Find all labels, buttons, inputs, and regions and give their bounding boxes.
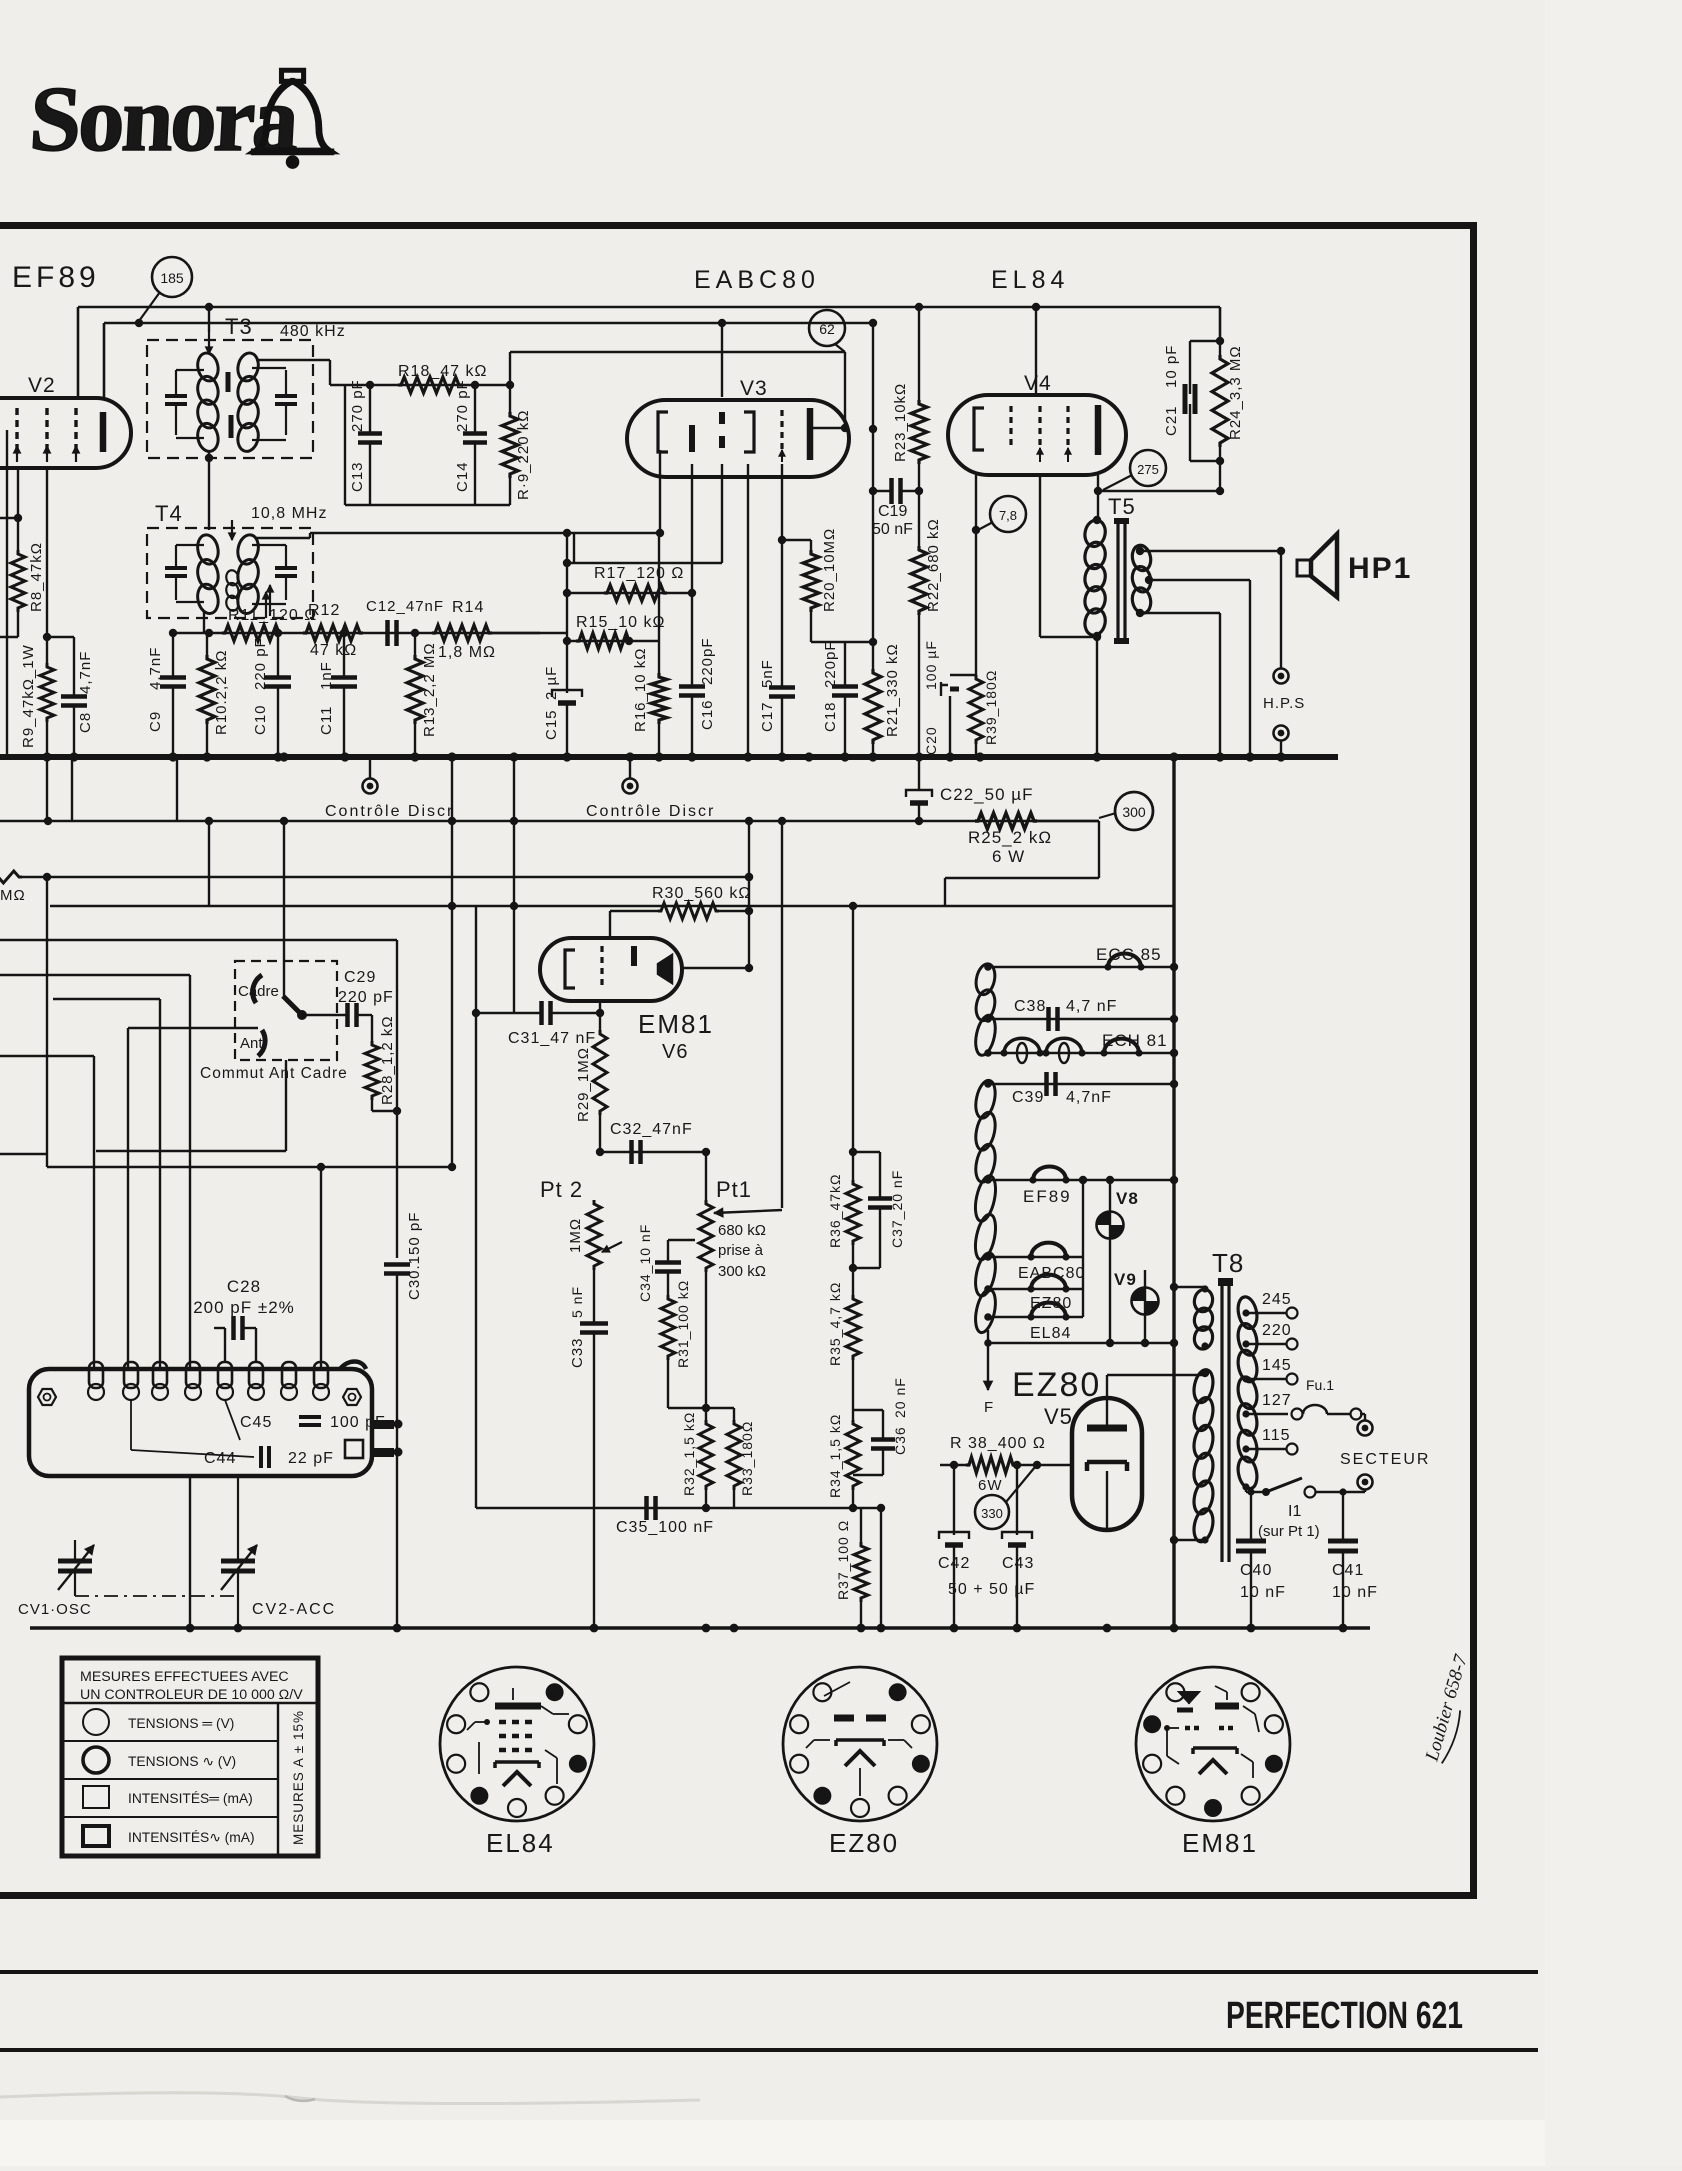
svg-text:1,8 MΩ: 1,8 MΩ (438, 644, 496, 661)
svg-text:6 W: 6 W (992, 847, 1025, 866)
svg-text:EM81: EM81 (638, 1009, 714, 1039)
svg-text:C31_47 nF: C31_47 nF (508, 1030, 596, 1047)
svg-text:V2: V2 (28, 374, 56, 397)
svg-text:50 nF: 50 nF (872, 521, 913, 538)
svg-text:C38: C38 (1014, 998, 1046, 1015)
svg-text:R39_180Ω: R39_180Ω (983, 670, 999, 745)
svg-text:480 kHz: 480 kHz (280, 323, 346, 340)
svg-text:C16: C16 (699, 699, 716, 730)
svg-text:R24_3,3 MΩ: R24_3,3 MΩ (1227, 345, 1244, 440)
svg-text:245: 245 (1262, 1291, 1292, 1308)
svg-text:C20: C20 (923, 726, 939, 755)
svg-text:C8: C8 (77, 712, 94, 733)
svg-text:220pF: 220pF (699, 637, 716, 685)
svg-text:R28_1,2 kΩ: R28_1,2 kΩ (379, 1015, 396, 1105)
svg-text:T3: T3 (225, 314, 253, 339)
svg-text:T8: T8 (1212, 1248, 1244, 1278)
svg-text:R32_1,5 kΩ: R32_1,5 kΩ (681, 1412, 697, 1496)
svg-text:R16_10 kΩ: R16_10 kΩ (632, 648, 649, 732)
svg-text:115: 115 (1262, 1427, 1291, 1444)
svg-text:270 pF: 270 pF (349, 379, 366, 432)
svg-text:4,7nF: 4,7nF (77, 651, 94, 694)
svg-text:C28: C28 (227, 1277, 261, 1296)
svg-text:R11_120 Ω: R11_120 Ω (228, 607, 317, 624)
svg-text:EL84: EL84 (1030, 1325, 1071, 1342)
svg-text:R20_10MΩ: R20_10MΩ (821, 528, 838, 612)
svg-text:680 kΩ: 680 kΩ (718, 1222, 766, 1239)
svg-text:C42: C42 (938, 1555, 970, 1572)
svg-text:220: 220 (1262, 1322, 1292, 1339)
svg-text:MΩ: MΩ (0, 887, 26, 904)
svg-text:TENSIONS ═ (V): TENSIONS ═ (V) (128, 1716, 234, 1731)
svg-text:TENSIONS ∿ (V): TENSIONS ∿ (V) (128, 1754, 236, 1769)
svg-text:1MΩ: 1MΩ (567, 1218, 584, 1253)
svg-text:UN CONTROLEUR DE 10 000 Ω/V: UN CONTROLEUR DE 10 000 Ω/V (80, 1687, 303, 1703)
svg-text:275: 275 (1137, 462, 1159, 477)
svg-text:10 nF: 10 nF (1240, 1584, 1286, 1601)
svg-text:1nF: 1nF (318, 661, 335, 690)
svg-text:SECTEUR: SECTEUR (1340, 1451, 1430, 1468)
svg-text:V9: V9 (1114, 1270, 1137, 1289)
svg-text:C36: C36 (892, 1426, 908, 1455)
svg-text:EL84: EL84 (991, 266, 1069, 294)
svg-text:R14: R14 (452, 599, 484, 616)
svg-text:127: 127 (1262, 1392, 1292, 1409)
svg-text:C32_47nF: C32_47nF (610, 1121, 693, 1138)
svg-text:4,7nF: 4,7nF (1066, 1089, 1112, 1106)
svg-text:220 pF: 220 pF (252, 637, 269, 690)
svg-text:C14: C14 (454, 461, 471, 492)
svg-text:2 µF: 2 µF (543, 666, 560, 700)
svg-text:C12_47nF: C12_47nF (366, 598, 444, 615)
svg-text:R22_680 kΩ: R22_680 kΩ (925, 518, 942, 612)
svg-text:C37_20 nF: C37_20 nF (889, 1170, 905, 1248)
svg-text:R17_120 Ω: R17_120 Ω (594, 565, 684, 582)
svg-text:H.P.S: H.P.S (1263, 695, 1305, 712)
svg-text:MESURES A ± 15%: MESURES A ± 15% (291, 1710, 306, 1845)
svg-text:EABC80: EABC80 (694, 266, 820, 294)
svg-text:C44: C44 (204, 1450, 236, 1467)
svg-text:T4: T4 (155, 501, 183, 526)
svg-text:ECC 85: ECC 85 (1096, 945, 1162, 964)
svg-text:6W: 6W (978, 1477, 1003, 1494)
svg-text:CV1·OSC: CV1·OSC (18, 1601, 92, 1618)
svg-text:HP1: HP1 (1348, 552, 1412, 585)
svg-text:R21_330 kΩ: R21_330 kΩ (884, 643, 901, 737)
svg-text:C13: C13 (349, 461, 366, 492)
svg-text:Ant: Ant (240, 1035, 263, 1052)
svg-text:Contrôle Discr: Contrôle Discr (586, 803, 715, 820)
svg-text:Pt 2: Pt 2 (540, 1177, 583, 1202)
svg-text:C34_10 nF: C34_10 nF (637, 1224, 653, 1302)
svg-text:10 pF: 10 pF (1163, 345, 1180, 388)
svg-text:C40: C40 (1240, 1562, 1272, 1579)
svg-text:C39: C39 (1012, 1089, 1044, 1106)
svg-text:C43: C43 (1002, 1555, 1034, 1572)
svg-text:EL84: EL84 (486, 1828, 555, 1858)
svg-text:EF89: EF89 (12, 261, 100, 294)
svg-text:100 pF: 100 pF (330, 1414, 386, 1431)
svg-text:R29_1MΩ: R29_1MΩ (575, 1047, 592, 1122)
svg-text:R13_2,2 MΩ: R13_2,2 MΩ (421, 642, 438, 737)
svg-text:C11: C11 (318, 706, 335, 735)
svg-text:47 kΩ: 47 kΩ (310, 642, 357, 659)
svg-text:270 pF: 270 pF (454, 379, 471, 432)
svg-text:5nF: 5nF (759, 659, 776, 688)
svg-text:22 pF: 22 pF (288, 1450, 334, 1467)
svg-text:C22_50 µF: C22_50 µF (940, 785, 1033, 804)
svg-text:EZ80: EZ80 (829, 1828, 899, 1858)
svg-text:C30.150 pF: C30.150 pF (406, 1212, 423, 1300)
svg-text:R34_1,5 kΩ: R34_1,5 kΩ (827, 1414, 843, 1498)
svg-text:220pF: 220pF (822, 640, 839, 688)
svg-text:Commut Ant Cadre: Commut Ant Cadre (200, 1065, 348, 1082)
svg-text:220 pF: 220 pF (338, 989, 394, 1006)
svg-text:ECH 81: ECH 81 (1102, 1031, 1168, 1050)
svg-text:R·9_220 kΩ: R·9_220 kΩ (515, 410, 532, 500)
svg-text:C41: C41 (1332, 1562, 1364, 1579)
svg-text:C9: C9 (147, 711, 164, 732)
svg-text:Cadre: Cadre (238, 983, 279, 1000)
svg-text:4,7nF: 4,7nF (147, 647, 164, 690)
svg-text:4,7 nF: 4,7 nF (1066, 998, 1117, 1015)
svg-text:R33_180Ω: R33_180Ω (739, 1421, 755, 1496)
svg-text:R31_100 kΩ: R31_100 kΩ (675, 1280, 691, 1368)
svg-text:Sonora: Sonora (27, 68, 301, 171)
svg-text:MESURES EFFECTUEES AVEC: MESURES EFFECTUEES AVEC (80, 1669, 289, 1685)
svg-text:R30_560 kΩ: R30_560 kΩ (652, 885, 751, 902)
svg-text:C17: C17 (759, 701, 776, 732)
svg-text:10 nF: 10 nF (1332, 1584, 1378, 1601)
svg-text:V8: V8 (1116, 1189, 1139, 1208)
svg-text:R 38_400 Ω: R 38_400 Ω (950, 1435, 1046, 1452)
svg-text:F: F (984, 1399, 994, 1416)
svg-text:I1: I1 (1288, 1503, 1301, 1520)
svg-text:145: 145 (1262, 1357, 1292, 1374)
svg-text:prise à: prise à (718, 1242, 764, 1259)
svg-text:10,8 MHz: 10,8 MHz (251, 505, 327, 522)
svg-text:50 + 50 µF: 50 + 50 µF (948, 1581, 1035, 1598)
svg-text:EZ80: EZ80 (1012, 1366, 1101, 1404)
svg-text:C19: C19 (878, 503, 907, 520)
svg-text:R9_47kΩ_1W: R9_47kΩ_1W (20, 644, 37, 748)
svg-text:R12: R12 (308, 602, 340, 619)
svg-text:PERFECTION 621: PERFECTION 621 (1226, 1995, 1463, 2037)
svg-text:R35_4,7 kΩ: R35_4,7 kΩ (827, 1282, 843, 1366)
svg-text:C45: C45 (240, 1414, 272, 1431)
svg-text:20 nF: 20 nF (892, 1377, 908, 1418)
svg-text:100 µF: 100 µF (923, 640, 939, 690)
svg-text:V3: V3 (740, 377, 768, 400)
svg-text:V4: V4 (1024, 372, 1052, 395)
svg-text:Fu.1: Fu.1 (1306, 1377, 1334, 1393)
svg-text:300 kΩ: 300 kΩ (718, 1263, 766, 1280)
svg-text:R36_47kΩ: R36_47kΩ (827, 1173, 843, 1248)
svg-text:C18: C18 (822, 701, 839, 732)
svg-text:EM81: EM81 (1182, 1828, 1258, 1858)
svg-text:R10.2,2 kΩ: R10.2,2 kΩ (213, 650, 230, 735)
svg-text:Pt1: Pt1 (716, 1177, 752, 1202)
svg-text:EF89: EF89 (1023, 1187, 1072, 1206)
svg-text:INTENSITÉS∿ (mA): INTENSITÉS∿ (mA) (128, 1829, 255, 1845)
svg-text:Contrôle Discr: Contrôle Discr (325, 803, 454, 820)
svg-text:V6: V6 (662, 1041, 688, 1063)
svg-text:R25_2 kΩ: R25_2 kΩ (968, 828, 1052, 847)
svg-text:C10: C10 (252, 704, 269, 735)
svg-text:R23_10kΩ: R23_10kΩ (892, 383, 909, 462)
svg-text:C33: C33 (569, 1337, 586, 1368)
svg-text:R37_100 Ω: R37_100 Ω (835, 1520, 851, 1600)
svg-text:CV2-ACC: CV2-ACC (252, 1601, 336, 1618)
svg-text:R15_10 kΩ: R15_10 kΩ (576, 614, 665, 631)
svg-text:C21: C21 (1163, 405, 1180, 436)
svg-text:INTENSITÉS═ (mA): INTENSITÉS═ (mA) (128, 1790, 253, 1806)
svg-text:330: 330 (981, 1506, 1003, 1521)
svg-text:185: 185 (160, 270, 184, 286)
svg-text:C35_100 nF: C35_100 nF (616, 1519, 714, 1536)
svg-text:300: 300 (1122, 804, 1146, 820)
svg-text:T5: T5 (1108, 494, 1136, 519)
svg-text:7,8: 7,8 (999, 508, 1017, 523)
svg-text:R8_47kΩ: R8_47kΩ (28, 542, 45, 612)
svg-text:C29: C29 (344, 969, 376, 986)
svg-text:V5: V5 (1044, 1404, 1073, 1429)
svg-text:200 pF ±2%: 200 pF ±2% (193, 1298, 295, 1317)
svg-text:5 nF: 5 nF (569, 1286, 585, 1318)
svg-text:(sur Pt 1): (sur Pt 1) (1258, 1523, 1320, 1540)
svg-text:C15: C15 (543, 709, 560, 740)
